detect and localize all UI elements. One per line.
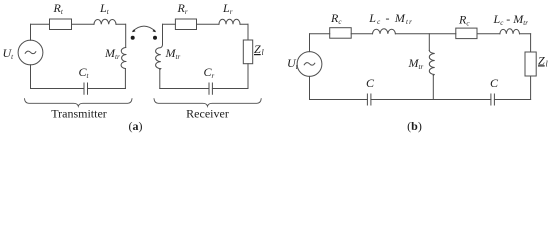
brace Receiver bbox=[154, 99, 261, 107]
wire: (a) receiver right rail bbox=[247, 24, 249, 88]
capacitor C_t bbox=[84, 83, 88, 94]
svg-text:Z: Z bbox=[538, 53, 545, 67]
inductor L_r bbox=[219, 19, 240, 24]
svg-text:C: C bbox=[366, 76, 375, 90]
coupled coil right M_tr (a) bbox=[156, 45, 163, 70]
inductor L_c - M_tr right (b) bbox=[500, 29, 520, 34]
wire: (a) receiver bottom rail bbox=[160, 88, 248, 90]
svg-text:Transmitter: Transmitter bbox=[51, 107, 107, 121]
resistor R_r bbox=[175, 19, 196, 30]
arrowhead right of coupling arc bbox=[153, 29, 156, 32]
inductor L_c - M_tr left (b) bbox=[373, 29, 396, 34]
svg-text:(a): (a) bbox=[129, 119, 143, 133]
wire: (b) left rail bbox=[309, 34, 311, 100]
capacitor C left (b) bbox=[367, 94, 371, 105]
brace Transmitter bbox=[25, 99, 133, 107]
wire: (a) transmitter top rail bbox=[31, 23, 126, 25]
resistor R_c right (b) bbox=[456, 28, 477, 38]
wire: (a) transmitter bottom rail bbox=[31, 88, 126, 90]
resistor R_c left (b) bbox=[330, 28, 352, 39]
wire: (a) transmitter right rail bbox=[124, 24, 126, 88]
arrowhead left of coupling arc bbox=[132, 29, 135, 32]
inductor L_t bbox=[94, 19, 116, 24]
coupled coil left M_tr (a) bbox=[121, 48, 126, 69]
dot left (a) bbox=[131, 36, 135, 40]
wire: (b) middle branch bbox=[429, 34, 433, 100]
coupling arrow arc (a) bbox=[133, 26, 156, 31]
capacitor C_r bbox=[209, 83, 212, 94]
svg-text:Z: Z bbox=[254, 42, 261, 56]
capacitor C right (b) bbox=[491, 94, 495, 105]
wire: (b) bottom rail bbox=[310, 99, 531, 101]
wire: (b) top rail bbox=[310, 33, 531, 35]
dot right (a) bbox=[153, 36, 157, 40]
wire: (b) right rail bbox=[530, 34, 532, 100]
svg-text:C: C bbox=[490, 76, 499, 90]
svg-text:Receiver: Receiver bbox=[186, 107, 229, 121]
wire: (a) transmitter left rail bbox=[30, 24, 32, 88]
inductor M_tr middle (b) bbox=[429, 51, 434, 76]
load Z_l (a) bbox=[243, 40, 252, 64]
load Z_l (b) bbox=[525, 52, 536, 76]
svg-text:(b): (b) bbox=[407, 119, 422, 133]
source U_t (a) bbox=[18, 40, 43, 65]
wire: (a) receiver top rail bbox=[163, 23, 249, 25]
wire: (a) receiver left rail bbox=[160, 24, 163, 88]
svg-text:Lc - Mtr: Lc - Mtr bbox=[493, 12, 529, 27]
resistor R_t bbox=[50, 19, 72, 30]
source U_t (b) bbox=[297, 52, 322, 77]
